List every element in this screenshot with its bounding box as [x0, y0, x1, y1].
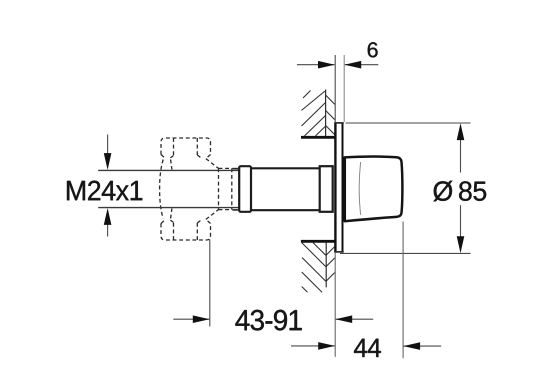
extension line left	[334, 55, 336, 122]
label M24x1	[67, 181, 142, 201]
dimension: 43-91 (installation depth range)	[173, 240, 373, 357]
dimension: Ø85 (escutcheon diameter)	[340, 123, 471, 253]
wall section (top) hatching	[301, 90, 335, 138]
body left bulged edge	[160, 160, 164, 219]
dimension: 6 (plate thickness)	[297, 55, 378, 122]
arrow left of 6	[318, 61, 335, 69]
arrow right toward 43-91 left limit	[193, 315, 210, 323]
extension line right	[343, 55, 345, 122]
collar ring	[239, 166, 251, 212]
arrow up at M24 bottom	[104, 208, 112, 225]
tube stubs between boss and collar	[232, 169, 239, 210]
dimension line tails	[173, 318, 209, 320]
band boundary line	[325, 243, 327, 288]
through-wall sleeve block	[320, 166, 333, 212]
wall edge bar (bottom)	[301, 240, 335, 243]
arrow down at 85 bottom	[457, 236, 465, 253]
plaster band hatch (bottom)	[326, 247, 335, 256]
arrow left toward 44 right limit	[403, 342, 420, 350]
band boundary line	[325, 90, 327, 137]
sleeve tube	[251, 168, 320, 210]
label 6	[368, 42, 378, 57]
pipe-to-body transition lines	[171, 160, 172, 219]
label 43-91	[235, 310, 301, 331]
extension line at knob front	[402, 222, 404, 359]
wall section (bottom) hatching	[301, 241, 335, 292]
top union nut	[161, 138, 211, 155]
plaster band hatch (top)	[326, 95, 335, 104]
arrow right toward 44 left limit	[318, 342, 335, 350]
knob base edge (thick)	[343, 157, 346, 222]
hidden front boss (dashed rectangle)	[219, 168, 232, 209]
arrow right of 6	[344, 61, 361, 69]
extension line bottom	[340, 252, 471, 254]
dimension: M24x1 (thread)	[107, 135, 109, 237]
handle knob	[345, 157, 403, 222]
extension line top	[346, 122, 471, 124]
knob surface curve	[359, 162, 360, 215]
bottom union nut	[161, 224, 211, 241]
body right shoulders	[206, 159, 219, 220]
threaded shaft M24x1 outline / extension lines	[98, 170, 239, 207]
escutcheon plate	[334, 123, 343, 253]
label 44	[354, 339, 381, 357]
extension line at valve rear	[209, 240, 211, 327]
concealed valve body (hidden, dashed outline)	[160, 138, 232, 240]
dimension line tails	[291, 345, 335, 347]
label Ø85	[433, 181, 486, 202]
arrow up at 85 top	[457, 123, 465, 140]
dimension line segments	[460, 125, 462, 173]
wall edge bar (top)	[301, 136, 335, 139]
dimension line tails	[297, 64, 335, 66]
dimension: 44 (knob projection)	[291, 222, 441, 359]
extension line at wall face	[334, 253, 336, 357]
arrow down at M24 top	[104, 153, 112, 170]
arrow left toward 43-91 right limit	[335, 315, 352, 323]
